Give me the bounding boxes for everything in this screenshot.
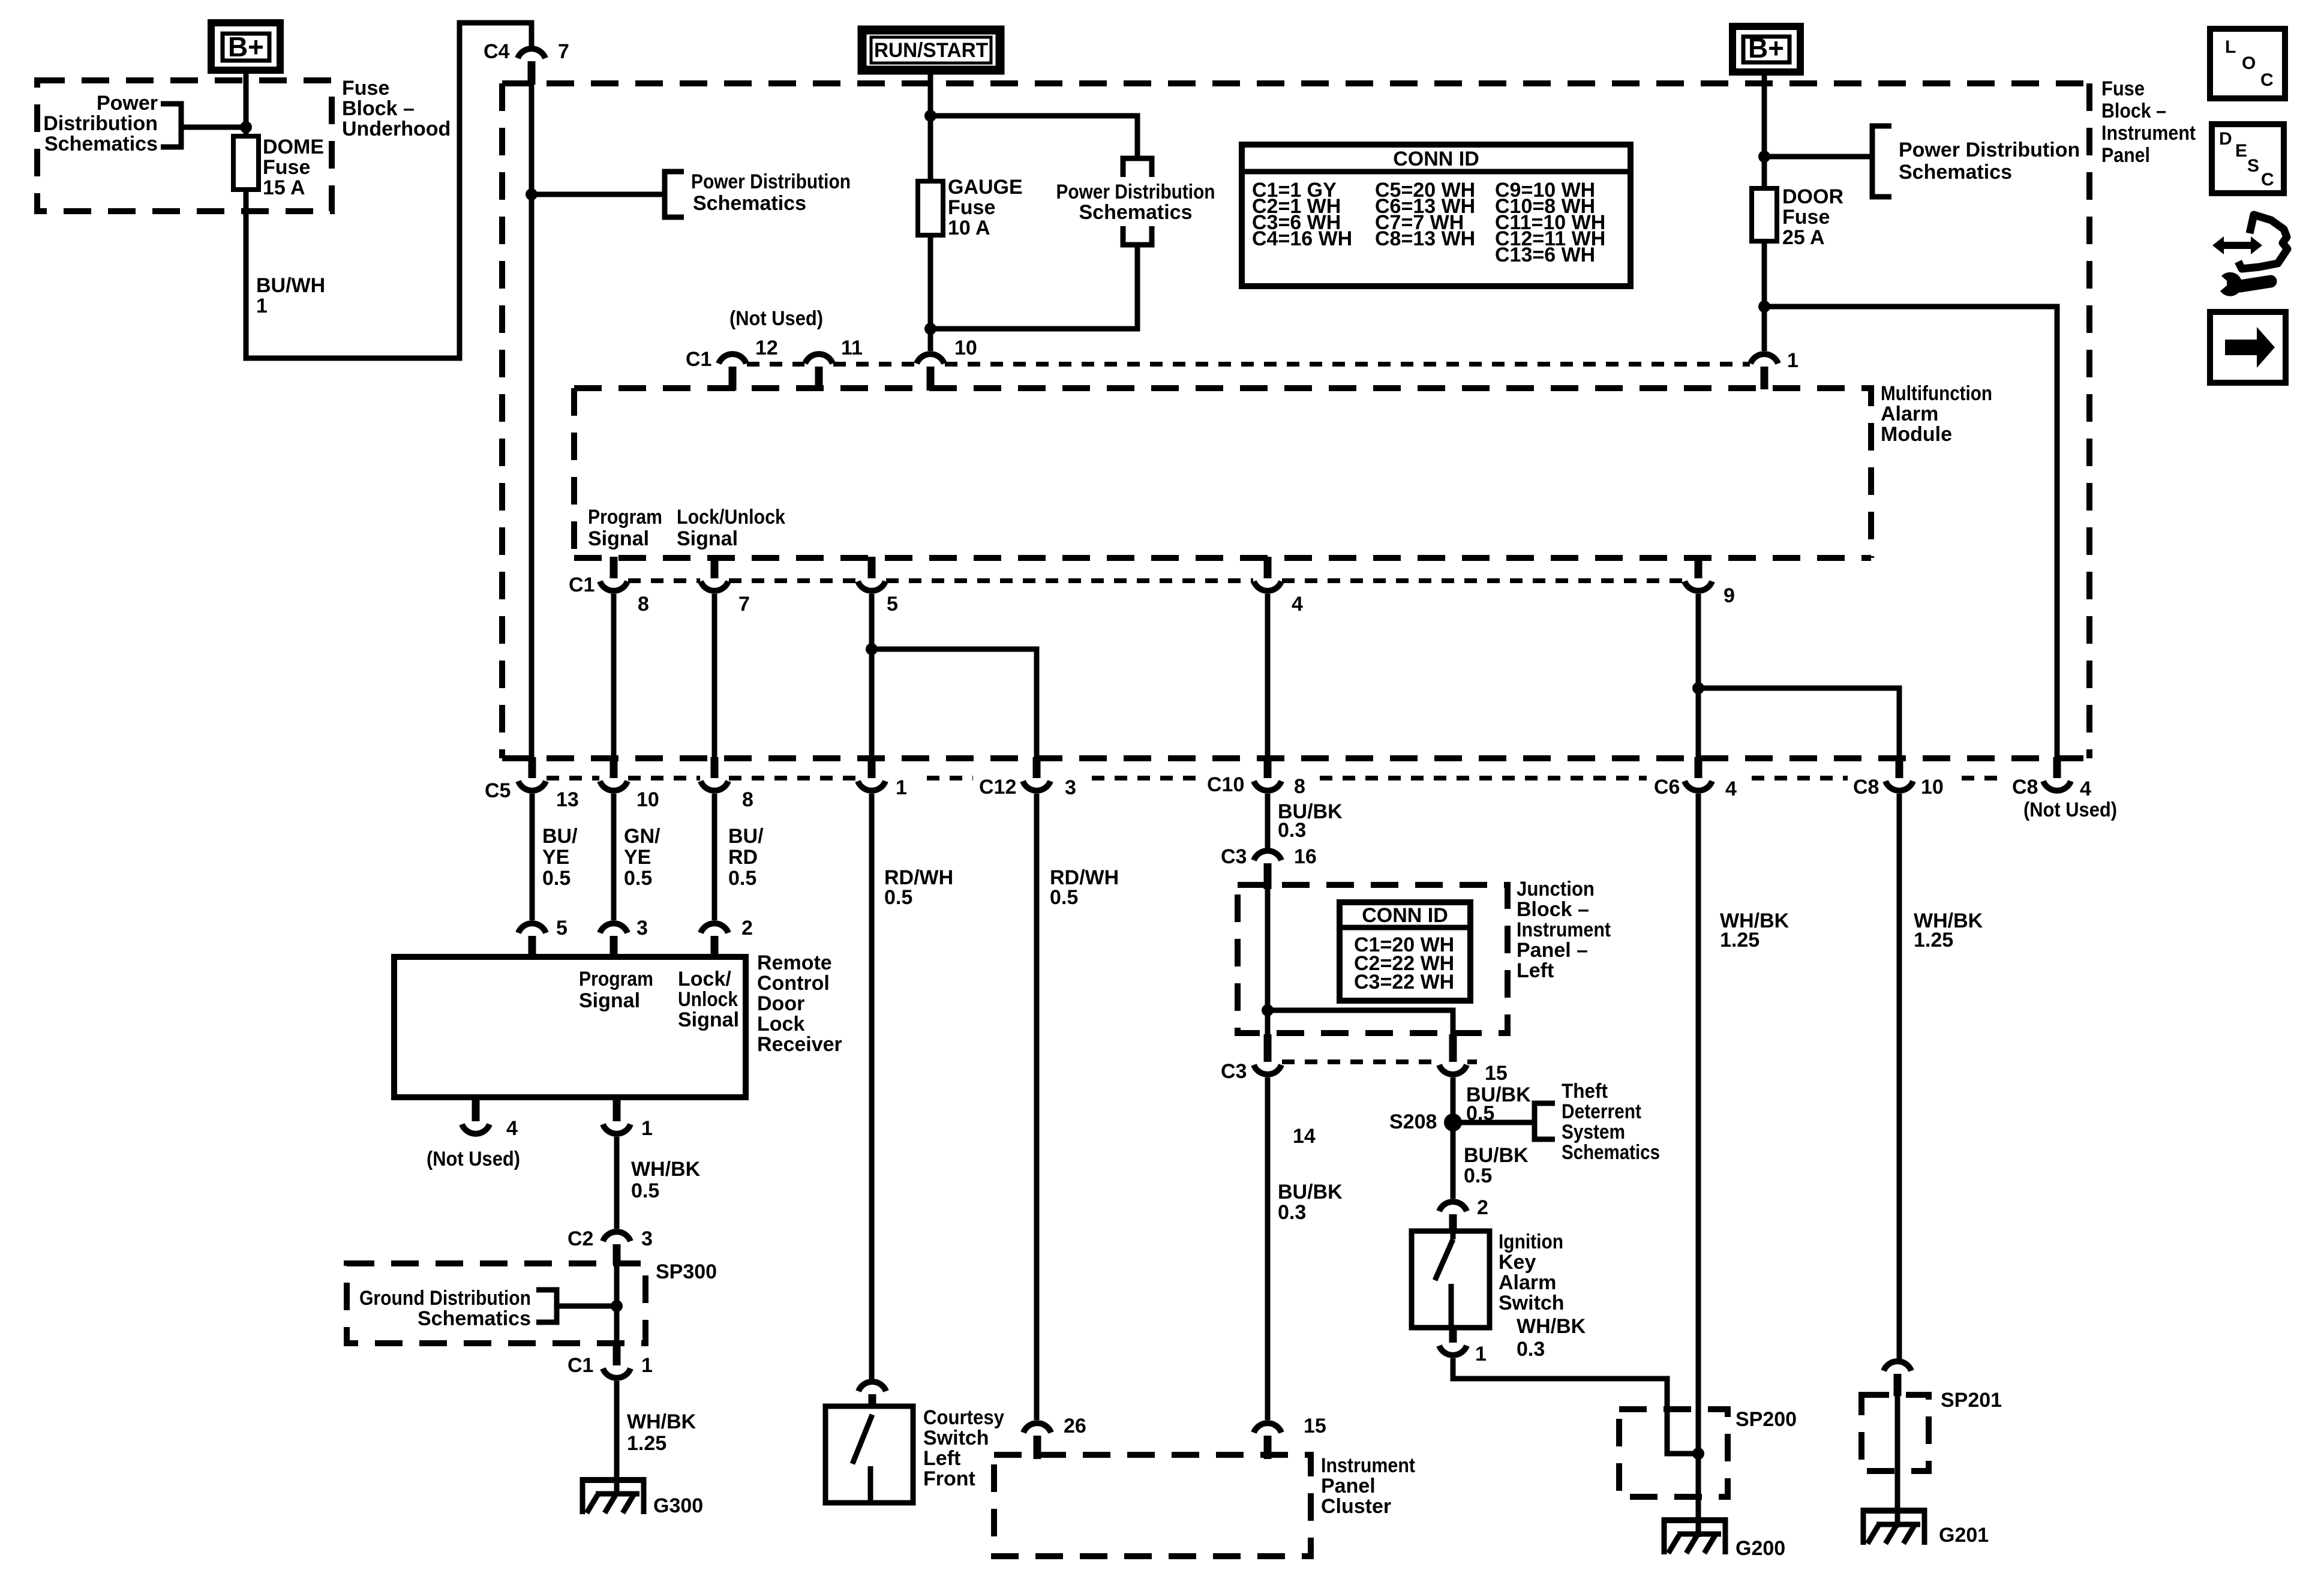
svg-text:0.3: 0.3 [1278, 819, 1306, 842]
node junction SP300 [611, 1300, 623, 1312]
connector C5 pin 8 [701, 757, 753, 811]
svg-text:DOOR: DOOR [1782, 185, 1843, 208]
wire DOOR fuse down to pin 1 [1762, 241, 1767, 351]
connector C1 pin 11 (not used) [805, 337, 863, 391]
svg-text:Fuse: Fuse [263, 156, 310, 179]
wire C3 pin 14 down to cluster pin 15 [1265, 1077, 1271, 1420]
svg-text:1: 1 [256, 295, 268, 317]
svg-text:Signal: Signal [588, 527, 649, 550]
svg-text:Control: Control [757, 972, 830, 995]
connector C1 pin 8 (module bottom) [600, 557, 649, 616]
wire module pin 9 down [1696, 594, 1701, 757]
ignition switch blade [1435, 1239, 1453, 1280]
svg-text:Left: Left [923, 1447, 960, 1470]
svg-text:Block –: Block – [342, 97, 415, 120]
ground G200 [1662, 1517, 1785, 1560]
svg-text:2: 2 [1477, 1196, 1488, 1219]
svg-text:Instrument: Instrument [1321, 1454, 1415, 1477]
svg-text:C5: C5 [485, 779, 511, 802]
svg-text:Ignition: Ignition [1499, 1230, 1563, 1253]
svg-text:0.5: 0.5 [884, 886, 912, 909]
label Junction Block - Instrument Panel - Left [1517, 878, 1611, 982]
svg-text:RD: RD [728, 846, 758, 869]
connector pin 1 (multifunction alarm module top) [1750, 349, 1798, 389]
bracket power distribution (mid left) [665, 172, 684, 217]
label Theft Deterrent System Schematics [1562, 1080, 1660, 1164]
svg-text:16: 16 [1294, 845, 1317, 868]
ground G201 [1861, 1508, 1989, 1547]
svg-text:11: 11 [841, 337, 863, 359]
svg-text:C6: C6 [1654, 776, 1680, 798]
svg-text:E: E [2235, 141, 2247, 161]
svg-text:4: 4 [1725, 778, 1737, 800]
svg-text:C3: C3 [1221, 845, 1247, 868]
svg-text:0.5: 0.5 [1050, 886, 1078, 909]
wire ignition pin 1 to SP200 [1453, 1358, 1698, 1454]
label Power Distribution Schematics (mid left) [691, 170, 851, 215]
svg-text:O: O [2242, 53, 2256, 73]
svg-text:B+: B+ [1748, 32, 1784, 64]
svg-text:C: C [2261, 170, 2274, 190]
junction block instrument panel left dashed box [1238, 885, 1508, 1033]
courtesy switch lower contact [868, 1466, 873, 1503]
icon LOC box [2210, 29, 2285, 98]
svg-text:0.5: 0.5 [624, 867, 652, 890]
label BU/RD 0.5 [728, 825, 764, 890]
wire module pin 4 down [1265, 594, 1271, 757]
wire bracket to B+ wire [181, 125, 246, 130]
svg-text:1.25: 1.25 [1914, 929, 1953, 951]
label WH/BK 1.25 (C8 wire) [1914, 909, 1983, 951]
svg-text:Power Distribution: Power Distribution [1056, 181, 1215, 203]
connector C1 pin 5 (module bottom) [858, 557, 898, 616]
connector C3 pin 14 (bottom of junction block) [1221, 1034, 1281, 1083]
label WH/BK 0.5 (receiver ground wire) [631, 1158, 701, 1202]
svg-text:4: 4 [506, 1117, 518, 1140]
wire pin 1 row to courtesy switch [869, 794, 875, 1380]
svg-text:Program: Program [579, 968, 653, 990]
svg-text:L: L [2225, 37, 2236, 57]
label Fuse Block - Instrument Panel [2101, 77, 2196, 167]
svg-text:25 A: 25 A [1782, 226, 1825, 249]
svg-text:SP201: SP201 [1941, 1389, 2002, 1412]
svg-text:C8=13 WH: C8=13 WH [1375, 227, 1475, 250]
connector receiver pin 5 [518, 917, 568, 958]
svg-text:Power Distribution: Power Distribution [691, 170, 851, 193]
connector pin 1 row [858, 757, 907, 799]
wire inside junction block [1265, 889, 1271, 1034]
fuse DOME 15A [233, 136, 259, 190]
CONN ID table (junction block) [1340, 902, 1470, 1001]
svg-text:Courtesy: Courtesy [923, 1406, 1004, 1429]
svg-text:Receiver: Receiver [757, 1033, 842, 1056]
wire power distribution loop bottom return [930, 247, 1137, 329]
ground G300 [580, 1477, 703, 1517]
svg-text:CONN ID: CONN ID [1393, 148, 1479, 170]
connector cluster pin 26 [1023, 1415, 1086, 1459]
RUN/START terminal [862, 30, 1000, 70]
wire bracket to SP300 wire [557, 1304, 617, 1309]
dotted connector row C1 module bottom [628, 578, 1684, 583]
instrument panel cluster dashed box [994, 1455, 1311, 1556]
connector C1 pin 10 [917, 337, 977, 391]
label Courtesy Switch Left Front [923, 1406, 1004, 1490]
node junction bottom of gauge fuse [924, 323, 936, 335]
wire through SP300 [614, 1263, 620, 1343]
svg-text:8: 8 [1294, 775, 1305, 798]
connector ignition switch pin 2 [1439, 1196, 1488, 1232]
svg-text:5: 5 [887, 593, 898, 616]
connector C3 pin 16 [1221, 845, 1317, 889]
icon DESC box [2212, 124, 2284, 193]
connector C6 pin 4 [1654, 757, 1737, 800]
svg-text:RUN/START: RUN/START [874, 39, 988, 62]
svg-text:15: 15 [1304, 1415, 1326, 1437]
svg-text:Fuse: Fuse [948, 196, 995, 219]
connector SP201 top [1884, 1361, 1911, 1396]
ignition key alarm switch box [1412, 1231, 1490, 1328]
svg-text:DOME: DOME [263, 136, 324, 158]
svg-text:Lock/Unlock: Lock/Unlock [677, 506, 785, 529]
svg-text:WH/BK: WH/BK [631, 1158, 701, 1181]
splice S208 [1389, 1110, 1462, 1133]
fuse block underhood dashed box [37, 80, 332, 211]
svg-text:Power: Power [97, 92, 158, 115]
wire B+ to DOME fuse [244, 70, 249, 136]
connector ignition switch pin 1 [1439, 1328, 1487, 1365]
label BU/BK 0.5 (above S208) [1466, 1083, 1531, 1125]
svg-text:1.25: 1.25 [1720, 929, 1759, 951]
label Instrument Panel Cluster [1321, 1454, 1415, 1518]
svg-text:4: 4 [2080, 778, 2091, 800]
splice SP201 dashed box [1861, 1395, 1929, 1471]
svg-text:2: 2 [741, 917, 753, 939]
svg-text:Signal: Signal [677, 527, 738, 550]
CONN ID table [1242, 145, 1631, 286]
svg-text:BU/WH: BU/WH [256, 274, 325, 297]
label DOOR Fuse 25 A [1782, 185, 1843, 249]
svg-text:1.25: 1.25 [627, 1432, 666, 1455]
label RD/WH 0.5 (cluster wire) [1050, 866, 1119, 909]
node junction on C4 wire [526, 188, 538, 200]
label Multifunction Alarm Module [1881, 382, 1992, 446]
svg-text:WH/BK: WH/BK [627, 1410, 696, 1433]
svg-text:10: 10 [954, 337, 977, 359]
svg-text:Schematics: Schematics [1562, 1141, 1660, 1164]
node junction below DOOR fuse [1758, 301, 1770, 313]
svg-text:Fuse: Fuse [1782, 206, 1830, 229]
svg-text:CONN ID: CONN ID [1362, 904, 1448, 927]
label GAUGE Fuse 10 A [948, 176, 1023, 239]
fuse block instrument panel dashed box [502, 83, 2089, 758]
connector receiver pin 3 [600, 917, 648, 958]
wire C3 pin 15 down to ignition switch [1451, 1077, 1456, 1199]
svg-text:WH/BK: WH/BK [1517, 1315, 1586, 1338]
svg-text:8: 8 [742, 788, 753, 811]
svg-text:Schematics: Schematics [1079, 201, 1193, 224]
svg-text:(Not Used): (Not Used) [729, 307, 823, 330]
svg-text:Schematics: Schematics [44, 133, 158, 155]
svg-text:1: 1 [896, 776, 907, 799]
svg-text:0.5: 0.5 [631, 1179, 659, 1202]
svg-text:BU/BK: BU/BK [1464, 1144, 1529, 1167]
wire branch pin 5 to C12 pin 3 [872, 649, 1037, 757]
svg-text:BU/: BU/ [542, 825, 578, 848]
svg-text:C12: C12 [979, 776, 1016, 798]
svg-text:Lock: Lock [757, 1013, 804, 1035]
svg-text:C: C [2260, 70, 2274, 90]
svg-text:C3: C3 [1221, 1060, 1247, 1083]
connector C1 pin 1 (below SP300) [568, 1344, 653, 1378]
label Lock/Unlock Signal (module) [677, 506, 785, 550]
svg-text:C8: C8 [1853, 776, 1879, 798]
courtesy switch box [825, 1406, 913, 1503]
wire GAUGE fuse to connector pin 10 [928, 235, 933, 351]
svg-text:Left: Left [1517, 959, 1554, 982]
svg-text:0.3: 0.3 [1517, 1338, 1545, 1361]
wire bracket to C4 wire [532, 192, 665, 197]
svg-text:BU/: BU/ [728, 825, 764, 848]
svg-text:Block –: Block – [1517, 898, 1589, 921]
svg-text:10: 10 [1921, 776, 1944, 798]
dotted connector row C1 top [747, 362, 1750, 367]
icon arrow box [2210, 312, 2286, 383]
fuse GAUGE 10A [918, 181, 943, 235]
svg-text:Key: Key [1499, 1251, 1536, 1274]
label WH/BK 1.25 (C6 wire) [1720, 909, 1789, 951]
label BU/YE 0.5 [542, 825, 578, 890]
svg-text:C4: C4 [484, 40, 510, 63]
label BU/BK 0.3 (pin 14 wire) [1278, 1181, 1343, 1224]
svg-text:YE: YE [542, 846, 569, 869]
label Power Distribution Schematics (center) [1056, 181, 1215, 224]
svg-text:Instrument: Instrument [2101, 122, 2196, 145]
node junction top of gauge fuse [924, 110, 936, 122]
svg-text:Alarm: Alarm [1881, 403, 1938, 425]
svg-text:0.5: 0.5 [728, 867, 756, 890]
svg-text:Program: Program [588, 506, 662, 529]
wire C6 pin 4 down through SP200 to G200 [1696, 794, 1701, 1537]
svg-text:Signal: Signal [579, 989, 640, 1012]
label Power Distribution Schematics (underhood) [43, 92, 158, 155]
svg-text:Deterrent: Deterrent [1562, 1100, 1641, 1123]
svg-text:C4=16 WH: C4=16 WH [1252, 227, 1352, 250]
svg-text:D: D [2219, 129, 2232, 149]
connector C1 pin 12 (not used) [719, 337, 778, 391]
bracket power distribution (right) [1872, 126, 1891, 197]
svg-text:Panel: Panel [1321, 1475, 1376, 1497]
label RD/WH 0.5 (courtesy wire) [884, 866, 953, 909]
svg-text:YE: YE [624, 846, 651, 869]
svg-text:G201: G201 [1939, 1524, 1989, 1547]
wire branch right to C8 pin 4 [1764, 307, 2057, 757]
ignition switch lower contact [1449, 1284, 1454, 1328]
svg-text:GN/: GN/ [624, 825, 660, 848]
node junction inside junction block [1262, 1004, 1274, 1016]
connector C12 pin 3 [979, 757, 1076, 799]
svg-text:BU/BK: BU/BK [1278, 1181, 1343, 1203]
connector receiver pin 4 (not used) [427, 1098, 520, 1170]
svg-text:12: 12 [755, 337, 778, 359]
svg-text:Panel: Panel [2101, 144, 2150, 167]
svg-text:Unlock: Unlock [678, 988, 738, 1011]
connector C3 pin 15 (bottom of junction block) [1439, 1034, 1508, 1085]
svg-text:Remote: Remote [757, 951, 832, 974]
connector receiver pin 2 [701, 917, 753, 958]
wire module pin 5 down [869, 594, 875, 757]
svg-text:Switch: Switch [1499, 1292, 1565, 1314]
svg-text:GAUGE: GAUGE [948, 176, 1023, 199]
label Remote Control Door Lock Receiver [757, 951, 842, 1056]
connector C1 pin 4 (module bottom) [1254, 557, 1303, 616]
svg-text:1: 1 [1787, 349, 1798, 372]
wire BU/YE to receiver pin 5 [530, 794, 535, 920]
connector cluster pin 15 [1254, 1415, 1326, 1459]
svg-text:Cluster: Cluster [1321, 1495, 1391, 1518]
svg-text:Schematics: Schematics [693, 192, 806, 215]
connector C1 pin 9 (module bottom) [1685, 557, 1735, 607]
svg-text:10: 10 [636, 788, 659, 811]
connector courtesy switch top [858, 1382, 886, 1416]
svg-text:System: System [1562, 1121, 1625, 1143]
splice SP200 dashed box [1619, 1409, 1728, 1497]
ignition switch upper contact [1451, 1231, 1456, 1239]
svg-text:Underhood: Underhood [342, 118, 451, 140]
icon service wrench with arrows [2212, 215, 2287, 296]
wire through SP201 to G201 [1895, 1396, 1900, 1527]
svg-text:Switch: Switch [923, 1427, 989, 1449]
svg-text:5: 5 [556, 917, 568, 939]
svg-text:G300: G300 [653, 1494, 703, 1517]
svg-text:Power Distribution: Power Distribution [1899, 139, 2080, 161]
wire bracket to DOOR wire [1764, 154, 1872, 160]
connector C4 pin 7 [484, 40, 569, 85]
svg-text:SP200: SP200 [1736, 1408, 1797, 1431]
wire receiver pin 1 down [614, 1137, 620, 1229]
courtesy switch blade [852, 1415, 872, 1464]
svg-text:C1: C1 [568, 1354, 593, 1377]
svg-text:14: 14 [1293, 1125, 1316, 1148]
svg-text:15 A: 15 A [263, 176, 305, 199]
label Program Signal (module) [588, 506, 662, 550]
svg-text:8: 8 [638, 593, 649, 616]
svg-text:C3=22 WH: C3=22 WH [1354, 971, 1454, 993]
svg-text:C1: C1 [686, 348, 711, 371]
wire C1 pin 1 to G300 [614, 1381, 620, 1496]
svg-text:Theft: Theft [1562, 1080, 1608, 1103]
label WH/BK 1.25 [627, 1410, 696, 1455]
svg-text:G200: G200 [1736, 1537, 1785, 1560]
connector C5 pin 13 [518, 757, 579, 811]
svg-text:1: 1 [641, 1354, 653, 1377]
label DOME Fuse 15 A [263, 136, 324, 199]
svg-text:Ground Distribution: Ground Distribution [359, 1287, 531, 1310]
wire DOME fuse down and around to C4 [246, 23, 532, 358]
B+ terminal (left) [211, 23, 280, 70]
label Program Signal (receiver) [579, 968, 653, 1012]
svg-text:Alarm: Alarm [1499, 1271, 1556, 1294]
connector C2 pin 3 [568, 1227, 653, 1265]
svg-text:(Not Used): (Not Used) [2023, 798, 2117, 821]
svg-text:15: 15 [1485, 1062, 1508, 1085]
svg-text:S: S [2247, 156, 2259, 176]
svg-text:Distribution: Distribution [43, 112, 158, 135]
svg-text:7: 7 [738, 593, 750, 616]
connector C8 pin 10 [1853, 757, 1944, 798]
label WH/BK 0.3 (ignition ground wire) [1517, 1315, 1586, 1361]
fuse DOOR 25A [1752, 188, 1777, 241]
wire C4 pin 7 down to C5 pin 13 [529, 85, 535, 757]
wire BU/RD to receiver pin 2 [712, 794, 717, 920]
wire C8 pin 10 down to SP201 [1897, 794, 1902, 1359]
svg-text:Schematics: Schematics [418, 1307, 531, 1330]
label Fuse Block - Underhood [342, 77, 451, 140]
svg-text:B+: B+ [228, 31, 264, 62]
svg-text:26: 26 [1064, 1415, 1086, 1437]
wire C12 pin 3 to cluster pin 26 [1034, 794, 1040, 1420]
label Power Distribution Schematics (right) [1899, 139, 2080, 184]
svg-text:Signal: Signal [678, 1008, 739, 1031]
svg-text:S208: S208 [1389, 1110, 1437, 1133]
bracket power distribution (underhood) [161, 104, 181, 147]
svg-text:Module: Module [1881, 423, 1952, 446]
node junction above DOOR fuse [1758, 151, 1770, 163]
label GN/YE 0.5 [624, 825, 660, 890]
bracket top power distribution loop [1123, 158, 1152, 177]
connector C8 pin 4 (not used) [2012, 757, 2117, 821]
label Ground Distribution Schematics [359, 1287, 531, 1330]
dotted connector row C3 [1282, 1059, 1477, 1064]
bracket theft deterrent [1535, 1103, 1555, 1139]
svg-text:3: 3 [641, 1227, 653, 1250]
wire module pin 8 down [611, 594, 617, 757]
node junction on pin 5 wire [866, 643, 878, 655]
bracket ground distribution [536, 1290, 557, 1322]
wire module pin 7 down [712, 594, 717, 757]
connector C1 pin 7 (module bottom) [701, 557, 750, 616]
svg-text:0.5: 0.5 [542, 867, 571, 890]
remote control door lock receiver box [394, 957, 746, 1097]
wire GN/YE to receiver pin 3 [611, 794, 617, 920]
svg-text:Lock/: Lock/ [678, 968, 731, 990]
svg-text:Panel –: Panel – [1517, 939, 1588, 962]
connector receiver pin 1 [603, 1098, 653, 1140]
wire branch pin 9 to C8 pin 10 [1698, 688, 1899, 757]
svg-text:0.5: 0.5 [1464, 1164, 1492, 1187]
svg-text:Fuse: Fuse [2101, 77, 2145, 100]
svg-text:Instrument: Instrument [1517, 918, 1611, 941]
bracket bottom power distribution loop [1123, 226, 1152, 245]
wire B+ right to DOOR fuse [1762, 72, 1767, 188]
svg-text:3: 3 [636, 917, 648, 939]
dotted connector row C5/C12/C10/C6/C8 [547, 776, 2007, 781]
svg-text:Schematics: Schematics [1899, 161, 2012, 184]
splice SP300 dashed box [347, 1263, 645, 1343]
svg-text:Block –: Block – [2101, 100, 2166, 122]
svg-text:C13=6 WH: C13=6 WH [1495, 244, 1595, 266]
connector C5 pin 10 [600, 757, 659, 811]
svg-text:1: 1 [641, 1117, 653, 1140]
label Ignition Key Alarm Switch [1499, 1230, 1565, 1314]
svg-text:10 A: 10 A [948, 217, 990, 239]
label Lock/Unlock Signal (receiver) [678, 968, 739, 1031]
svg-text:Door: Door [757, 992, 804, 1015]
svg-text:Junction: Junction [1517, 878, 1595, 900]
svg-text:C10: C10 [1207, 773, 1244, 796]
svg-text:(Not Used): (Not Used) [427, 1148, 520, 1170]
svg-text:9: 9 [1724, 584, 1735, 607]
svg-text:C8: C8 [2012, 776, 2038, 798]
